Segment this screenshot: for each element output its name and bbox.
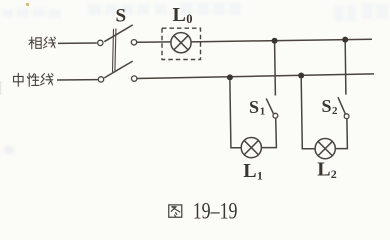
wire: S1 to lamp L1 <box>262 118 277 148</box>
wire: live lead-in <box>58 42 97 44</box>
wire: neutral lead-in <box>57 79 98 81</box>
switch S (double pole) <box>98 25 137 82</box>
label 相线 (live wire) <box>29 37 55 49</box>
wire: neutral bus to the right <box>137 74 374 79</box>
svg-text:L: L <box>173 4 186 26</box>
svg-text:S: S <box>249 97 259 117</box>
wire: live from switch to lamp box <box>137 41 171 43</box>
dashed enclosure around L0 <box>162 28 201 59</box>
lamp L1 <box>241 138 261 158</box>
lever S2 <box>338 97 346 114</box>
wire: neutral to lamp L1 <box>230 80 241 148</box>
label 中性线 (neutral wire) <box>14 73 54 86</box>
svg-text:L: L <box>243 160 256 182</box>
wire: neutral to lamp L2 <box>301 78 315 148</box>
svg-text:L: L <box>317 159 330 181</box>
svg-text:0: 0 <box>186 12 192 26</box>
switch S1 <box>266 98 278 118</box>
contact S2 <box>344 114 349 119</box>
lever: neutral pole <box>104 61 132 78</box>
lamp L0 <box>171 33 191 53</box>
wire: S2 branch drop <box>344 43 347 95</box>
svg-text:2: 2 <box>332 105 338 117</box>
ghost print-through text at top <box>2 3 388 21</box>
svg-text:1: 1 <box>257 168 263 182</box>
mechanical link (double line) <box>113 29 114 73</box>
junction on neutral bus (L2 branch) <box>298 73 304 79</box>
contact: live left <box>98 40 103 45</box>
contact: live right <box>131 40 136 45</box>
wire: S1 branch drop <box>274 44 277 96</box>
contact S1 <box>273 113 278 118</box>
junction on neutral bus (L1 branch) <box>227 74 233 80</box>
svg-text:S: S <box>322 96 332 116</box>
switch S2 <box>338 97 349 118</box>
svg-text:1: 1 <box>260 106 266 118</box>
wire: S2 to lamp L2 <box>335 119 347 149</box>
svg-text:S: S <box>116 5 127 26</box>
lever: live pole <box>104 25 132 42</box>
ghost orange speck <box>26 3 29 6</box>
svg-text:2: 2 <box>331 167 337 181</box>
left edge scan artifact <box>0 81 1 95</box>
contact: neutral right <box>132 76 137 81</box>
contact: neutral left <box>98 77 103 82</box>
lamp L2 <box>315 139 335 159</box>
lever S1 <box>266 98 273 113</box>
wire: live bus to the right <box>191 39 372 42</box>
svg-text:19–19: 19–19 <box>193 199 238 225</box>
junction on live bus (S1 branch) <box>272 38 278 44</box>
junction on live bus (S2 branch) <box>342 37 348 43</box>
caption 图 19-19 <box>169 205 182 217</box>
